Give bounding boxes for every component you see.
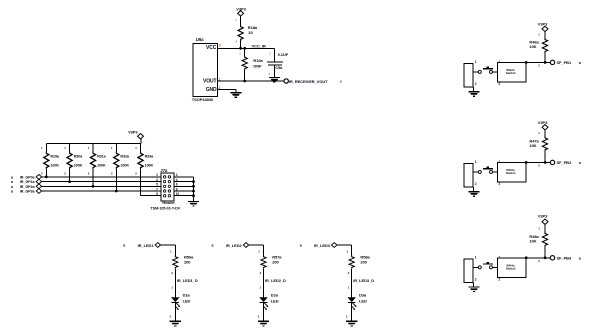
svg-text:1: 1 — [239, 52, 241, 56]
svg-text:V3P3: V3P3 — [538, 120, 548, 125]
svg-text:DNP: DNP — [253, 63, 262, 68]
svg-text:R33a: R33a — [145, 155, 155, 159]
svg-text:V3P3: V3P3 — [538, 21, 548, 26]
svg-text:R31a: R31a — [97, 155, 107, 159]
svg-text:GND: GND — [206, 87, 217, 93]
svg-text:SF_PB3: SF_PB3 — [557, 256, 572, 261]
svg-text:2: 2 — [219, 86, 221, 90]
svg-text:100K: 100K — [120, 163, 129, 167]
svg-text:1: 1 — [170, 249, 172, 253]
svg-text:2: 2 — [171, 271, 173, 275]
svg-text:1: 1 — [499, 160, 501, 164]
svg-text:R10a: R10a — [253, 58, 263, 63]
svg-text:a: a — [11, 180, 14, 184]
svg-text:2: 2 — [236, 40, 238, 44]
svg-text:Switch: Switch — [506, 71, 516, 75]
svg-text:1: 1 — [156, 173, 158, 177]
svg-text:IR_LED3_D: IR_LED3_D — [353, 278, 374, 283]
svg-text:a: a — [340, 80, 343, 84]
svg-text:100K: 100K — [97, 163, 106, 167]
svg-text:1: 1 — [219, 77, 221, 81]
svg-text:2: 2 — [499, 277, 501, 281]
svg-text:2: 2 — [348, 271, 350, 275]
svg-text:IR_LED2_D: IR_LED2_D — [265, 278, 286, 283]
svg-text:100K: 100K — [50, 163, 59, 167]
svg-text:1: 1 — [88, 146, 90, 150]
svg-text:a: a — [579, 257, 582, 261]
svg-text:a: a — [11, 190, 14, 194]
svg-text:10K: 10K — [529, 44, 536, 49]
svg-text:2: 2 — [258, 314, 260, 318]
svg-text:100K: 100K — [74, 163, 83, 167]
svg-text:1: 1 — [475, 60, 477, 64]
svg-text:1: 1 — [538, 227, 540, 231]
svg-text:1: 1 — [499, 60, 501, 64]
svg-text:a: a — [11, 185, 14, 189]
svg-text:R32a: R32a — [120, 155, 130, 159]
svg-text:Switch: Switch — [506, 267, 516, 271]
svg-text:TSM-105-01-T-DV: TSM-105-01-T-DV — [150, 206, 180, 210]
svg-text:1: 1 — [475, 256, 477, 260]
svg-text:2: 2 — [538, 164, 540, 168]
svg-text:2: 2 — [475, 278, 477, 282]
svg-text:IR_GP0a: IR_GP0a — [20, 176, 36, 180]
svg-text:VCC_IR: VCC_IR — [252, 44, 266, 49]
svg-text:IR_GP3a: IR_GP3a — [20, 190, 36, 194]
svg-text:2: 2 — [111, 172, 113, 176]
svg-text:1: 1 — [171, 285, 173, 289]
svg-text:IR_LED1_D: IR_LED1_D — [177, 278, 198, 283]
svg-text:IR_RECEIVER_VOUT: IR_RECEIVER_VOUT — [289, 79, 328, 84]
svg-text:VCC: VCC — [206, 45, 217, 51]
svg-text:1: 1 — [260, 285, 262, 289]
svg-text:J7a: J7a — [160, 168, 168, 173]
svg-text:D2a: D2a — [271, 292, 279, 297]
svg-text:Header: Header — [162, 201, 175, 205]
svg-text:R29a: R29a — [50, 155, 60, 159]
svg-text:2: 2 — [260, 271, 262, 275]
svg-text:8: 8 — [176, 187, 178, 191]
svg-text:1: 1 — [269, 52, 271, 56]
svg-text:2: 2 — [64, 172, 66, 176]
svg-text:D3a: D3a — [359, 292, 367, 297]
svg-text:Switch: Switch — [506, 171, 516, 175]
svg-text:a: a — [579, 161, 582, 165]
svg-text:IR_LED1: IR_LED1 — [138, 243, 155, 248]
svg-text:1: 1 — [346, 249, 348, 253]
svg-text:100K: 100K — [145, 163, 154, 167]
svg-text:2: 2 — [41, 172, 43, 176]
svg-text:a: a — [300, 244, 303, 248]
svg-text:33: 33 — [248, 30, 253, 35]
svg-text:a: a — [11, 175, 14, 179]
svg-text:2: 2 — [170, 314, 172, 318]
svg-text:LED: LED — [183, 299, 191, 304]
svg-text:1: 1 — [475, 160, 477, 164]
svg-text:1: 1 — [41, 146, 43, 150]
svg-text:3: 3 — [156, 178, 158, 182]
svg-text:1: 1 — [538, 131, 540, 135]
svg-text:IR_GP1a: IR_GP1a — [20, 180, 36, 184]
svg-text:1: 1 — [348, 285, 350, 289]
svg-text:2: 2 — [176, 173, 178, 177]
svg-text:5: 5 — [156, 183, 158, 187]
svg-text:1: 1 — [235, 18, 237, 22]
svg-text:2: 2 — [499, 182, 501, 186]
svg-text:R30a: R30a — [74, 155, 84, 159]
svg-text:IR_LED2: IR_LED2 — [226, 243, 243, 248]
svg-text:2: 2 — [475, 182, 477, 186]
svg-text:0.1UF: 0.1UF — [278, 52, 289, 57]
svg-text:C9a: C9a — [275, 65, 283, 70]
svg-text:3: 3 — [219, 44, 221, 48]
svg-text:V3P3: V3P3 — [236, 7, 246, 12]
svg-text:VOUT: VOUT — [203, 79, 217, 85]
svg-text:1: 1 — [499, 256, 501, 260]
svg-text:1: 1 — [135, 146, 137, 150]
svg-text:2: 2 — [346, 314, 348, 318]
svg-text:2: 2 — [135, 172, 137, 176]
svg-text:2: 2 — [538, 64, 540, 68]
svg-text:1: 1 — [111, 146, 113, 150]
svg-text:10K: 10K — [529, 239, 536, 244]
svg-text:9: 9 — [156, 192, 158, 196]
svg-text:TSOP34836: TSOP34836 — [192, 97, 214, 102]
svg-text:SF_PB1: SF_PB1 — [557, 60, 572, 65]
svg-text:D1a: D1a — [183, 292, 191, 297]
svg-text:6: 6 — [176, 183, 178, 187]
svg-text:2: 2 — [538, 259, 540, 263]
svg-text:200: 200 — [184, 260, 191, 265]
svg-text:200: 200 — [272, 260, 279, 265]
svg-text:U6a: U6a — [196, 37, 204, 42]
svg-text:1: 1 — [64, 146, 66, 150]
svg-text:LED: LED — [359, 299, 367, 304]
svg-text:LED: LED — [271, 299, 279, 304]
svg-text:2: 2 — [88, 172, 90, 176]
svg-text:IR_GP2a: IR_GP2a — [20, 185, 36, 189]
svg-text:4: 4 — [176, 178, 178, 182]
svg-text:V3P3: V3P3 — [128, 130, 138, 135]
svg-text:a: a — [123, 244, 126, 248]
svg-text:a: a — [212, 244, 215, 248]
svg-text:IR_LED3: IR_LED3 — [314, 243, 331, 248]
svg-text:2: 2 — [268, 72, 270, 76]
svg-text:V3P3: V3P3 — [538, 214, 548, 219]
svg-text:2: 2 — [475, 82, 477, 86]
svg-text:1: 1 — [258, 249, 260, 253]
svg-text:a: a — [579, 61, 582, 65]
svg-text:10K: 10K — [529, 143, 536, 148]
svg-text:1: 1 — [538, 33, 540, 37]
svg-text:2: 2 — [499, 82, 501, 86]
svg-text:200: 200 — [360, 260, 367, 265]
svg-text:SF_PB2: SF_PB2 — [557, 160, 572, 165]
svg-text:10: 10 — [176, 192, 180, 196]
svg-text:7: 7 — [156, 187, 158, 191]
